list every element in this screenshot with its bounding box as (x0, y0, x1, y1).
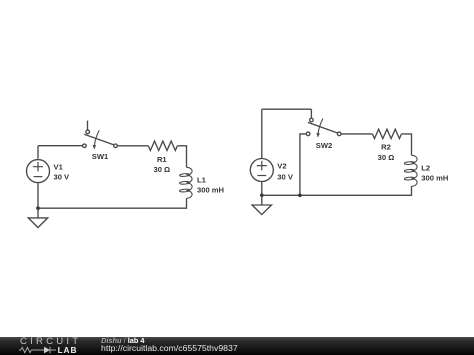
voltage source V2 (250, 159, 273, 182)
footer title line (101, 337, 145, 344)
wire SW2 right to R2 (341, 133, 372, 135)
svg-text:R1: R1 (157, 155, 167, 164)
lever (308, 122, 338, 133)
svg-text:30 V: 30 V (54, 172, 71, 181)
CircuitLab logo wordmark CIRCUIT (20, 339, 81, 346)
inductor L2 (404, 155, 417, 186)
lever (84, 134, 114, 145)
svg-text:SW1: SW1 (92, 152, 109, 161)
logo diode (44, 347, 50, 354)
wire V1 top vertical (37, 146, 39, 159)
wire down to SW2 pivot (310, 109, 312, 118)
wire SW1 right to R1 (117, 145, 148, 147)
resistor R1 (148, 141, 177, 150)
logo resistor zigzag (19, 347, 34, 352)
ground right (252, 195, 271, 214)
resistor R2 (372, 129, 401, 138)
right terminal circle (337, 132, 341, 136)
wire top rail right circuit (262, 108, 312, 110)
wire V1 bottom vertical (37, 183, 39, 209)
right terminal circle (114, 144, 118, 148)
actuation arrow (318, 119, 323, 134)
svg-text:SW2: SW2 (316, 141, 332, 150)
left terminal circle (83, 144, 87, 148)
wire top rail left circuit (38, 145, 83, 147)
wire SW2 left terminal to left branch (300, 134, 306, 195)
switch SW1 (83, 121, 118, 150)
node junction left circuit (36, 206, 40, 210)
wire R2 to corner and down to L2 (402, 134, 412, 155)
actuation arrow (94, 130, 99, 145)
switch SW2 (306, 118, 341, 138)
svg-text:300 mH: 300 mH (197, 185, 224, 194)
left terminal circle (306, 132, 310, 136)
svg-text:R2: R2 (381, 143, 391, 152)
svg-text:30 Ω: 30 Ω (153, 165, 170, 174)
wire L1 bottom to bottom rail (38, 198, 187, 208)
svg-text:L2: L2 (421, 164, 430, 173)
svg-text:30 Ω: 30 Ω (378, 153, 395, 162)
ground left (28, 208, 47, 227)
node junction SW2 branch (298, 194, 302, 198)
pivot stub (87, 121, 89, 131)
pivot terminal circle (86, 130, 90, 134)
svg-text:L1: L1 (197, 175, 207, 184)
wire V2 top vertical (261, 109, 263, 158)
wire R1 to corner and down to L1 (177, 146, 186, 168)
node junction V2 bottom (260, 194, 264, 198)
footer bar (0, 337, 474, 355)
footer url line (101, 345, 238, 352)
svg-text:V1: V1 (54, 162, 64, 171)
wire V2 bottom vertical (261, 182, 263, 196)
svg-text:30 V: 30 V (277, 172, 294, 181)
voltage source V1 (27, 160, 50, 183)
svg-text:300 mH: 300 mH (421, 174, 448, 183)
svg-text:V2: V2 (277, 161, 286, 170)
CircuitLab logo schematic glyph (resistor + diode) (14, 345, 64, 355)
CircuitLab logo wordmark LAB (58, 347, 78, 353)
inductor L1 (179, 167, 192, 198)
wire L2 bottom to bottom rail (262, 186, 412, 195)
pivot terminal circle (310, 118, 314, 122)
